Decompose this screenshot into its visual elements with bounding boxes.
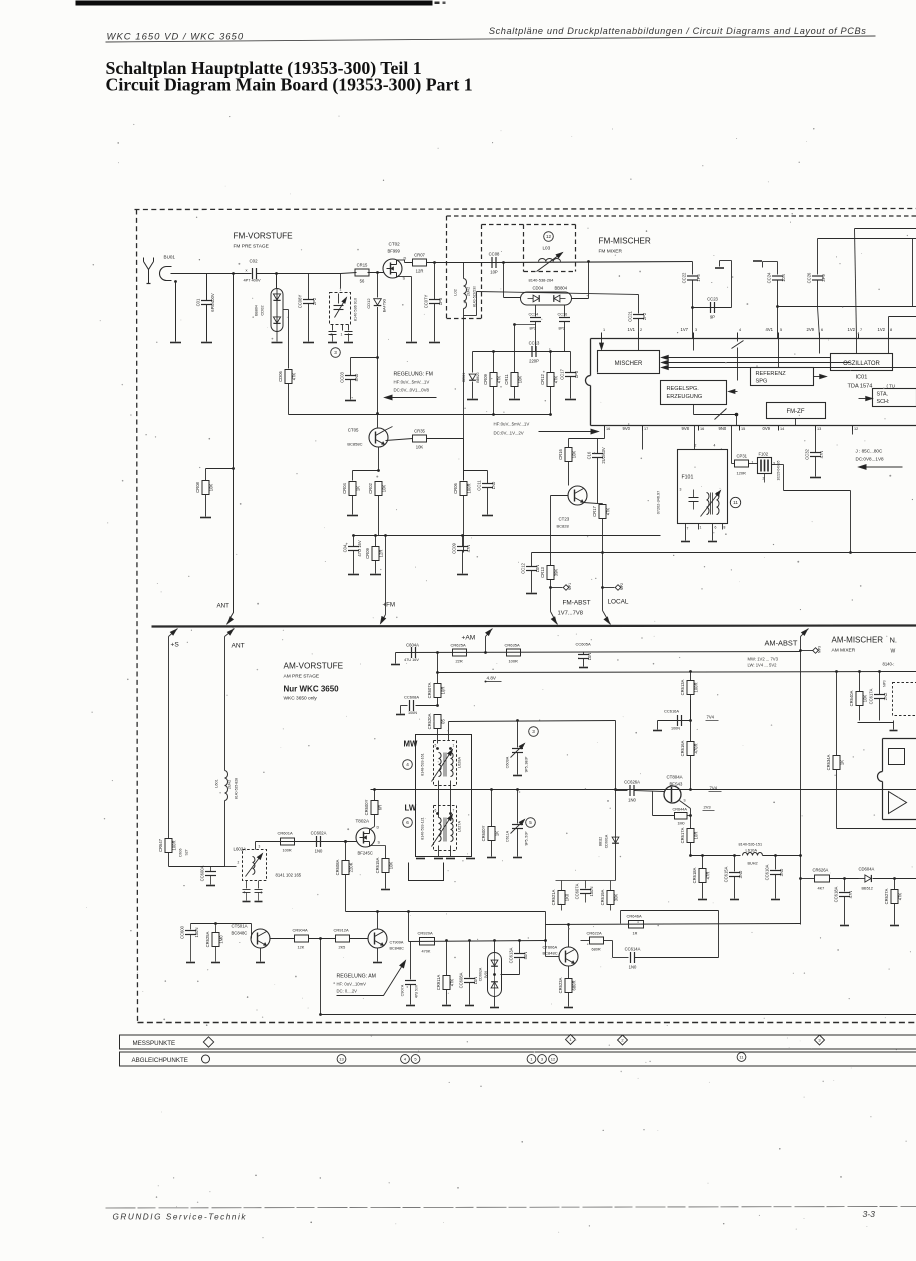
svg-text:680R: 680R — [572, 980, 577, 990]
resistor CR608A — [344, 840, 347, 843]
resistor CR644A loop — [652, 792, 654, 816]
svg-text:10N: 10N — [473, 977, 478, 985]
ground F101 pin6 — [708, 541, 717, 543]
AM mixer opamp triangle — [889, 792, 907, 814]
resistor CR646A — [629, 921, 644, 929]
wire to CR06 column — [427, 438, 464, 440]
node MP2 branch — [601, 586, 604, 589]
svg-text:4V1: 4V1 — [766, 327, 774, 332]
svg-text:5: 5 — [529, 820, 532, 825]
svg-text:CR09: CR09 — [483, 373, 488, 384]
test point circle 3 — [331, 348, 341, 358]
resistor CR912A — [336, 935, 350, 942]
node CC07Y tap — [433, 261, 436, 264]
wire CR11 upper tap — [513, 323, 516, 326]
IC internal wire pin5 — [778, 339, 780, 368]
svg-text:8: 8 — [724, 526, 726, 530]
svg-text:NP0: NP0 — [883, 680, 887, 687]
svg-text:10K: 10K — [209, 484, 214, 492]
svg-text:2: 2 — [640, 328, 642, 332]
L02 dashed box right — [481, 225, 483, 319]
svg-text:D: D — [377, 826, 380, 830]
capacitor CC26 on pin6 line — [817, 239, 819, 275]
node CD02 tap — [275, 272, 278, 275]
svg-text:MP2: MP2 — [620, 583, 624, 590]
test point circle 12 — [544, 232, 554, 242]
svg-text:470K: 470K — [422, 950, 431, 954]
scan noise — [611, 128, 614, 131]
svg-text:2: 2 — [695, 444, 697, 448]
svg-text:2N2: 2N2 — [883, 692, 888, 700]
capacitor CC32 — [815, 426, 817, 453]
test point circle 5 — [526, 818, 536, 828]
L602A pin caps — [243, 889, 251, 891]
ground CC09 — [457, 574, 468, 576]
svg-text:CT02: CT02 — [389, 242, 401, 247]
wire pin8 feed — [889, 316, 916, 318]
svg-text:7: 7 — [453, 809, 455, 813]
svg-text:10P: 10P — [490, 270, 498, 275]
ground CC08Y — [303, 342, 314, 344]
resistor CR619A — [610, 881, 612, 891]
ground CR618A — [698, 899, 707, 901]
capacitor C604A electrolytic — [395, 653, 397, 664]
svg-text:2UH2: 2UH2 — [467, 287, 471, 296]
svg-text:FM-MISCHER: FM-MISCHER — [599, 237, 651, 246]
wire CT23 emitter — [584, 503, 598, 504]
node C604A — [436, 651, 439, 654]
svg-text:7V4: 7V4 — [710, 786, 718, 791]
wire — [309, 938, 336, 940]
svg-text:CR623A: CR623A — [558, 977, 563, 993]
varicap CD601A — [612, 837, 619, 843]
svg-text:S27: S27 — [185, 849, 189, 855]
svg-text:12R: 12R — [416, 269, 424, 274]
svg-text:100N: 100N — [589, 886, 594, 896]
svg-text:120R: 120R — [737, 471, 746, 476]
svg-text:1M0: 1M0 — [219, 935, 224, 944]
wire CT501A base row — [191, 923, 252, 925]
IC internal wire pin6 — [819, 339, 821, 354]
svg-text:CR13: CR13 — [540, 566, 545, 577]
svg-text:3: 3 — [259, 845, 261, 849]
svg-text:AM-VORSTUFE: AM-VORSTUFE — [284, 662, 344, 671]
trimmer caps under tuning box — [329, 331, 337, 333]
IC internal node with slash — [694, 414, 737, 416]
svg-text:( TU: ( TU — [887, 384, 895, 389]
resistor CR625A — [453, 649, 467, 656]
svg-text:CC03: CC03 — [340, 371, 345, 382]
resistor CR15 — [341, 273, 357, 274]
resistor CR616A — [690, 700, 692, 742]
svg-text:AM-MISCHER: AM-MISCHER — [832, 636, 884, 645]
IC internal wire fmzf — [795, 419, 797, 426]
resistor CR09b — [492, 350, 495, 353]
svg-text:47N: 47N — [466, 545, 471, 553]
svg-text:47U 16V: 47U 16V — [404, 658, 419, 662]
wire AGC row — [409, 941, 546, 942]
node MP1 branch — [549, 586, 552, 589]
resistor CR634A — [835, 670, 838, 673]
L02 dashed box bottom — [447, 318, 482, 320]
MW coils — [439, 753, 442, 777]
svg-text:10K: 10K — [572, 451, 577, 459]
ground C04 — [348, 574, 359, 576]
svg-text:47K: 47K — [292, 373, 297, 381]
svg-text:CR920A: CR920A — [418, 931, 433, 936]
node CR626A row — [799, 877, 802, 880]
svg-text:4.8V: 4.8V — [487, 676, 497, 681]
test point MP2 — [615, 585, 621, 591]
svg-text:Nur WKC 3650: Nur WKC 3650 — [284, 685, 340, 694]
svg-text:DC:0V...0V1...0V8: DC:0V...0V1...0V8 — [394, 388, 430, 393]
svg-text:1N0: 1N0 — [491, 481, 496, 489]
svg-text:CC07Y: CC07Y — [424, 295, 429, 309]
wire pin16 down — [604, 426, 606, 439]
svg-text:10R: 10R — [694, 832, 699, 840]
svg-text:CT804A: CT804A — [667, 775, 683, 780]
svg-text:HF:0uV...5mV...1V: HF:0uV...5mV...1V — [494, 422, 530, 427]
ground CR610A — [487, 857, 496, 859]
ground C611A — [513, 857, 522, 859]
svg-text:CC08: CC08 — [489, 252, 500, 257]
svg-text:47K: 47K — [898, 893, 903, 901]
circle abgleich 3 — [538, 1055, 547, 1064]
svg-text:3: 3 — [334, 350, 337, 355]
svg-text:220P: 220P — [529, 359, 539, 364]
ground CC12 — [526, 593, 537, 595]
svg-text:CR02: CR02 — [368, 482, 373, 493]
svg-text:CR11: CR11 — [504, 374, 509, 385]
svg-text:1: 1 — [453, 744, 455, 748]
IC internal wire pin3 — [693, 339, 695, 351]
wire CC23 row — [691, 306, 694, 309]
capacitor CC615A — [734, 856, 736, 872]
IC01 block outline — [591, 338, 916, 340]
ground CD02 — [272, 342, 283, 344]
svg-text:LW: 1V4 ... 5V2: LW: 1V4 ... 5V2 — [748, 663, 778, 668]
svg-text:T802A: T802A — [356, 819, 370, 824]
L03 dashed box bottom — [524, 271, 576, 273]
ground F101 area stub — [688, 536, 690, 545]
svg-text:11: 11 — [733, 500, 738, 505]
test point circle 11 — [730, 497, 740, 507]
wire CC13 row — [473, 351, 571, 353]
svg-text:6: 6 — [406, 820, 409, 825]
arrow into STA box — [859, 398, 873, 400]
wire AGC top row — [346, 911, 546, 913]
wire small top row — [556, 880, 616, 882]
svg-text:3N0: 3N0 — [779, 868, 784, 876]
svg-text:100R: 100R — [467, 483, 472, 493]
MW transformer outer box — [416, 735, 472, 857]
svg-text:CC26: CC26 — [807, 272, 812, 283]
svg-text:7V4: 7V4 — [707, 715, 715, 720]
svg-text:6: 6 — [435, 809, 437, 813]
ground CC615A — [730, 899, 739, 901]
svg-text:CR600Y: CR600Y — [481, 825, 486, 841]
box STAND SCHALT partial — [873, 389, 916, 407]
svg-text:CR617A: CR617A — [680, 827, 685, 843]
svg-text:56: 56 — [360, 279, 365, 284]
wire ANT drop — [225, 629, 235, 637]
node C01 tuning box tap — [340, 274, 342, 289]
svg-text:4: 4 — [406, 762, 409, 767]
svg-text:CC617A: CC617A — [869, 688, 874, 704]
svg-text:CD06: CD06 — [278, 370, 283, 381]
wire CT501A emitter — [260, 948, 262, 962]
capacitor CC600 — [190, 924, 192, 930]
wire main FM line — [171, 273, 252, 275]
svg-text:1: 1 — [340, 288, 342, 292]
svg-text:TDA 1574: TDA 1574 — [848, 384, 873, 390]
wire +FM drop — [384, 534, 387, 537]
svg-text:N.: N. — [890, 636, 898, 645]
capacitor CC602A — [316, 836, 318, 847]
svg-text:CR904A: CR904A — [293, 928, 308, 933]
ground CT02 source — [406, 342, 417, 344]
wire MW LW link verticals — [437, 749, 439, 814]
resistor CR626A — [815, 875, 830, 882]
svg-text:HF: 0uV...10mV: HF: 0uV...10mV — [337, 982, 367, 987]
svg-text:BC858C: BC858C — [347, 442, 362, 447]
svg-text:CC616A: CC616A — [664, 709, 679, 714]
IC internal wire pin1 arrow into MISCHER — [601, 339, 603, 349]
svg-text:S: S — [684, 799, 686, 803]
resistor CR635A — [507, 649, 521, 656]
svg-text:07202-346.97: 07202-346.97 — [657, 491, 661, 514]
svg-text:BC828: BC828 — [557, 524, 570, 529]
svg-text:CR15: CR15 — [357, 263, 368, 268]
svg-text:CD604A: CD604A — [859, 867, 875, 872]
ground CC07Y — [429, 342, 440, 344]
wire +S drop — [169, 629, 178, 637]
svg-text:BB804: BB804 — [555, 286, 568, 291]
svg-text:C609A: C609A — [506, 756, 510, 768]
resistor CR607A — [437, 673, 439, 684]
svg-text:10K: 10K — [416, 445, 424, 450]
resistor CR920A — [420, 938, 435, 946]
capacitor C01 — [206, 274, 208, 301]
wire CT02 drain — [397, 259, 405, 261]
svg-text:BC848C: BC848C — [543, 951, 558, 956]
resistor CR627A — [893, 877, 896, 880]
svg-text:4: 4 — [739, 328, 741, 332]
capacitor CC21 on pin2 line — [638, 295, 640, 314]
resistor CD06 — [285, 370, 292, 384]
wire CT02 source to ground — [397, 276, 412, 278]
wire pin15 down to CP31 — [731, 426, 733, 464]
capacitor CC618A — [844, 879, 846, 892]
capacitor CC22 on pin3 line — [692, 262, 694, 275]
capacitor CC613A — [514, 953, 525, 955]
wire F102 pin2 stub — [764, 474, 766, 483]
svg-text:+S: +S — [171, 642, 180, 649]
svg-text:CC610A: CC610A — [765, 864, 770, 880]
wire CT501A collector — [267, 929, 273, 932]
svg-text:CR616A: CR616A — [680, 740, 685, 756]
ground CC616A — [653, 730, 662, 732]
svg-text:FM-ABST: FM-ABST — [563, 600, 591, 607]
svg-text:J : 85C...80C: J : 85C...80C — [856, 449, 883, 454]
svg-text:9V99: 9V99 — [484, 971, 488, 979]
svg-text:2V9: 2V9 — [807, 327, 815, 332]
svg-text:CC17: CC17 — [560, 368, 565, 379]
svg-text:39K: 39K — [554, 569, 559, 577]
svg-text:L02: L02 — [453, 288, 458, 295]
FM/AM divider line — [152, 626, 916, 627]
svg-text:DC:0V...1V...2V: DC:0V...1V...2V — [494, 431, 524, 436]
svg-text:12: 12 — [546, 234, 552, 239]
svg-text:CR12: CR12 — [540, 373, 545, 384]
svg-text:9P5..50P: 9P5..50P — [525, 831, 529, 846]
diamond messpunkt 1 — [566, 1035, 576, 1045]
resistor CR06 — [460, 482, 467, 496]
svg-text:100N: 100N — [408, 711, 417, 715]
wire LOCAL kink — [603, 611, 611, 625]
wire CT909A emitter — [377, 948, 379, 962]
svg-text:REGELUNG: AM: REGELUNG: AM — [337, 974, 377, 980]
svg-text:47N: 47N — [819, 451, 824, 459]
L03 dashed box top — [482, 224, 576, 226]
svg-text:ANT: ANT — [217, 603, 230, 610]
svg-text:3P9: 3P9 — [821, 274, 826, 282]
svg-text:L610A: L610A — [746, 848, 758, 853]
svg-text:CR640A: CR640A — [849, 690, 854, 706]
svg-text:CR09: CR09 — [365, 547, 370, 558]
svg-text:100N: 100N — [671, 727, 680, 731]
svg-text:12R: 12R — [379, 550, 384, 558]
svg-text:3: 3 — [532, 729, 535, 734]
svg-text:1: 1 — [700, 526, 702, 530]
capacitor CC08 — [491, 257, 493, 268]
resistor CR35 — [388, 437, 413, 439]
svg-text:AM MIXER: AM MIXER — [832, 648, 856, 654]
svg-text:30K: 30K — [614, 894, 619, 902]
svg-text:17: 17 — [644, 427, 648, 431]
svg-text:CD01: CD01 — [462, 373, 466, 383]
ground CR623A — [564, 1007, 573, 1009]
svg-text:47K: 47K — [606, 508, 611, 516]
wire F102 out — [772, 464, 784, 466]
svg-text:47N: 47N — [848, 891, 853, 899]
capacitor CC23 — [710, 302, 712, 313]
table MESSPUNKTE box — [120, 1035, 916, 1049]
svg-text:4: 4 — [714, 444, 716, 448]
wire osc tank top — [818, 238, 916, 240]
svg-text:7: 7 — [860, 328, 862, 332]
wire CT05 collector — [385, 427, 393, 431]
svg-text:BB512: BB512 — [862, 887, 873, 891]
svg-text:CC23: CC23 — [707, 297, 718, 302]
wire L602A bottom to base — [258, 901, 260, 903]
wire 4V8 rail — [437, 653, 439, 673]
svg-text:9N0: 9N0 — [719, 426, 727, 431]
svg-text:1V7: 1V7 — [681, 327, 689, 332]
svg-text:CC615A: CC615A — [724, 866, 729, 882]
AM mixer IC block — [883, 738, 916, 740]
svg-text:L628A: L628A — [458, 757, 462, 768]
node CT05 base — [376, 412, 379, 415]
svg-text:Schaltpläne und Druckplattenab: Schaltpläne und Druckplattenabbildungen … — [489, 26, 867, 36]
resistor CR911A — [445, 939, 448, 942]
svg-text:+FM: +FM — [383, 602, 396, 609]
svg-text:CC613A: CC613A — [509, 947, 514, 963]
FM-MISCHER dashed box left — [446, 216, 448, 319]
svg-text:CR622A: CR622A — [587, 931, 602, 936]
svg-text:CC08Y: CC08Y — [298, 295, 303, 309]
svg-text:8140-:: 8140-: — [883, 662, 895, 667]
svg-text:12: 12 — [854, 427, 858, 431]
svg-text:FM MIXER: FM MIXER — [599, 249, 623, 255]
svg-text:C611A: C611A — [506, 830, 510, 842]
ground CC32 — [810, 477, 821, 479]
svg-text:1N0: 1N0 — [315, 849, 323, 854]
ground CR08 — [200, 517, 211, 519]
svg-text:CR607A: CR607A — [427, 682, 432, 698]
LW pins — [436, 812, 439, 815]
svg-text:47K: 47K — [554, 376, 559, 384]
svg-text:F101: F101 — [682, 475, 694, 481]
svg-text:CP31: CP31 — [737, 454, 748, 459]
transistor CT23 BC828 — [568, 486, 587, 505]
svg-text:BUH2: BUH2 — [748, 862, 758, 866]
svg-text:Circuit Diagram Main Board (19: Circuit Diagram Main Board (19353-300) P… — [106, 75, 473, 96]
svg-text:5N0: 5N0 — [354, 373, 359, 381]
capacitor CC608A b — [468, 939, 471, 942]
svg-text:C01: C01 — [196, 298, 201, 306]
svg-text:F102: F102 — [759, 452, 769, 457]
svg-text:CR08: CR08 — [195, 481, 200, 492]
wire CD02 mid tap to CD06 — [283, 309, 289, 311]
wire — [497, 262, 693, 263]
ground CR911A — [442, 1005, 451, 1007]
schematic dashed border left — [137, 210, 138, 1023]
svg-text:CC14: CC14 — [529, 313, 539, 317]
ground C609A — [513, 775, 522, 777]
ground CD01 — [467, 399, 478, 401]
svg-text:5: 5 — [435, 744, 437, 748]
svg-text:1: 1 — [341, 333, 343, 337]
svg-text:CT05: CT05 — [348, 428, 359, 433]
svg-text:22R: 22R — [456, 659, 463, 664]
svg-text:100R: 100R — [694, 682, 699, 692]
wire right edge vertical — [912, 239, 914, 307]
svg-text:C604A: C604A — [406, 643, 419, 648]
svg-text:3: 3 — [680, 488, 682, 492]
node ANT tap — [232, 272, 235, 275]
capacitor CC607A — [585, 881, 587, 889]
resistor CR622A — [575, 942, 581, 950]
svg-text:MP3: MP3 — [818, 646, 822, 653]
svg-text:CT909A: CT909A — [390, 941, 404, 945]
svg-text:CR634A: CR634A — [826, 754, 831, 770]
svg-text:2K5: 2K5 — [339, 946, 346, 950]
capacitor CC614A — [613, 957, 629, 959]
L03 dashed box right — [575, 225, 577, 272]
svg-text:8P2: 8P2 — [559, 327, 565, 331]
svg-text:14: 14 — [780, 427, 784, 431]
capacitor CC14 — [535, 305, 537, 317]
arrow dc left — [859, 466, 903, 468]
svg-text:4K7: 4K7 — [818, 887, 825, 891]
svg-text:IC01: IC01 — [856, 375, 868, 381]
node AGC drop — [407, 910, 410, 913]
resistor CR621A — [561, 881, 563, 891]
svg-text:13: 13 — [817, 427, 821, 431]
wire CD601A vertical — [615, 721, 617, 881]
table ABGLEICHPUNKTE box — [120, 1052, 916, 1066]
